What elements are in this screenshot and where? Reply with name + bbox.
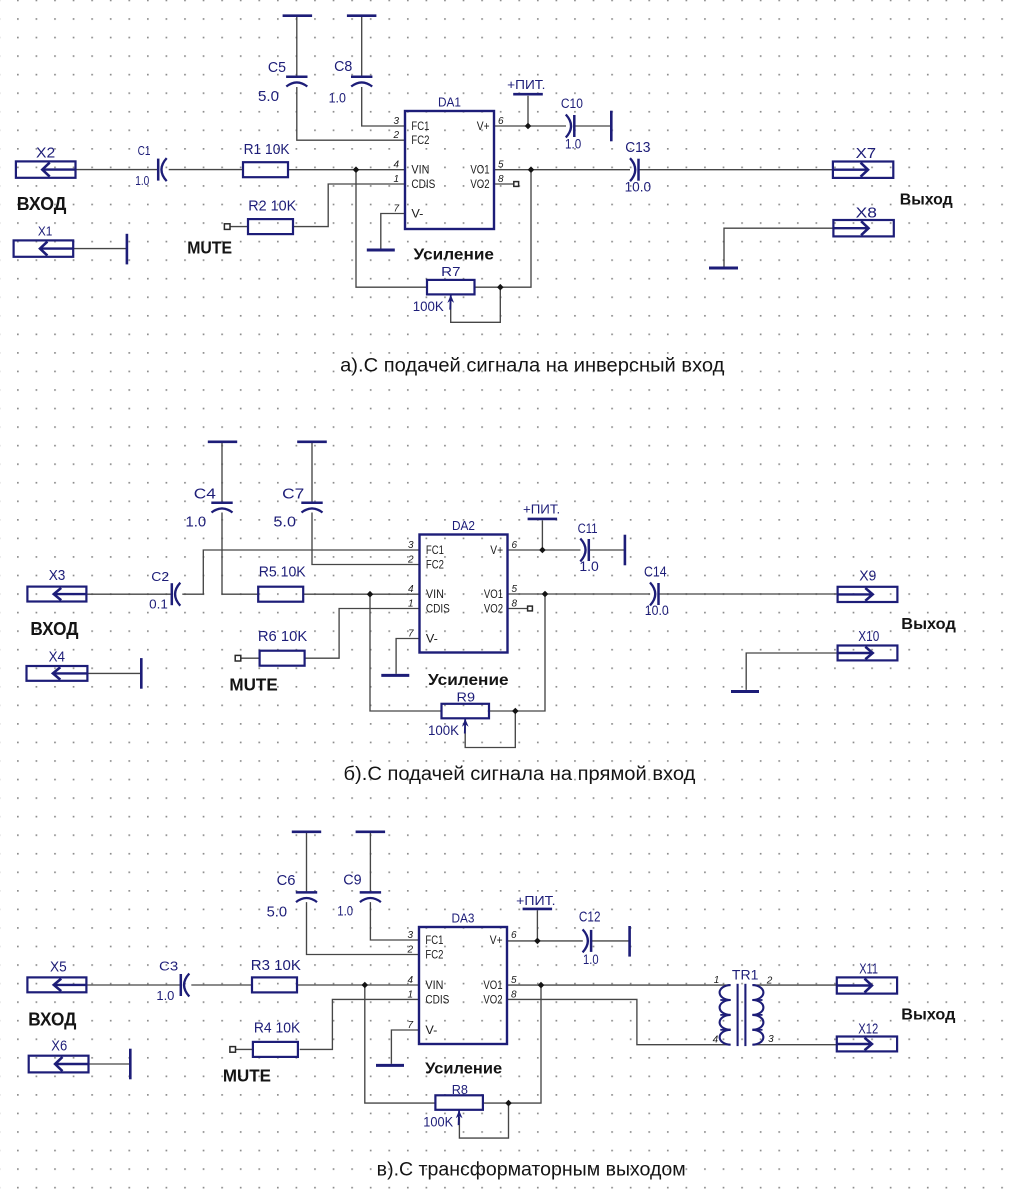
svg-text:2: 2 <box>392 130 399 141</box>
svg-text:3: 3 <box>407 930 413 941</box>
svg-text:R5 10K: R5 10K <box>259 564 306 581</box>
svg-text:X10: X10 <box>858 629 879 645</box>
svg-text:C14: C14 <box>644 564 667 580</box>
wire C8 top to ground bar <box>361 17 363 77</box>
wire X4 stub to terminator bar <box>87 672 141 674</box>
svg-text:4: 4 <box>393 160 399 171</box>
wire MUTE terminal to R4 <box>236 1048 253 1050</box>
svg-text:DA2: DA2 <box>452 518 475 533</box>
svg-text:б).С подачей сигнала на прямой: б).С подачей сигнала на прямой вход <box>344 764 696 785</box>
svg-text:DA1: DA1 <box>438 95 461 110</box>
svg-text:X4: X4 <box>49 650 65 666</box>
svg-text:R2 10K: R2 10K <box>248 198 296 215</box>
resistor R5 <box>258 564 306 602</box>
op-amp DA3 <box>406 911 517 1045</box>
wire C14 to X9 <box>659 593 838 595</box>
wire +PWR bar down to V+ line b <box>541 520 543 550</box>
wire pin 1 CDIS DA1 to R2 <box>293 184 405 227</box>
svg-text:5: 5 <box>498 160 504 171</box>
svg-text:V-: V- <box>426 633 438 645</box>
svg-text:1: 1 <box>407 989 413 1000</box>
terminator bar after C12 <box>628 926 631 957</box>
capacitor C1 <box>135 143 167 188</box>
junction V+ node b <box>539 547 546 554</box>
svg-text:1.0: 1.0 <box>583 952 599 967</box>
svg-text:C12: C12 <box>579 910 601 926</box>
junction R8 wiper node <box>505 1100 512 1107</box>
svg-text:6: 6 <box>498 116 504 127</box>
transformer TR1 <box>713 968 774 1047</box>
connector X12 <box>837 1022 897 1052</box>
terminator bar after C10 <box>610 111 613 142</box>
svg-text:3: 3 <box>393 116 399 127</box>
ground bar X10 <box>731 690 759 693</box>
svg-text:7: 7 <box>393 204 399 215</box>
junction R7 wiper node <box>497 284 504 291</box>
svg-text:2: 2 <box>406 945 413 956</box>
ground bar above C7 <box>297 440 327 443</box>
wire pin 5 VO1 DA2 to C14 <box>508 593 651 595</box>
svg-text:VO1: VO1 <box>483 980 502 992</box>
svg-text:1.0: 1.0 <box>565 137 581 152</box>
wire C1 to R1 <box>169 169 243 171</box>
svg-text:C1: C1 <box>138 143 151 158</box>
connector X10 <box>838 629 898 661</box>
svg-text:Усиление: Усиление <box>425 1060 502 1077</box>
svg-text:X9: X9 <box>859 569 876 585</box>
svg-text:+ПИТ.: +ПИТ. <box>516 894 555 908</box>
wire C10 to terminator bar <box>574 125 611 127</box>
svg-text:+ПИТ.: +ПИТ. <box>523 503 560 517</box>
terminal square MUTE c <box>230 1047 236 1053</box>
svg-text:ВХОД: ВХОД <box>17 193 67 214</box>
svg-text:X3: X3 <box>49 568 66 584</box>
connector X4 <box>27 650 88 681</box>
connector X3 <box>27 568 86 602</box>
svg-text:C3: C3 <box>159 959 178 974</box>
svg-text:TR1: TR1 <box>732 968 759 983</box>
capacitor C10 <box>561 96 583 151</box>
svg-text:R8: R8 <box>452 1082 468 1097</box>
wire R5 to pin 4 VIN DA2 <box>303 593 419 595</box>
svg-text:FC2: FC2 <box>411 135 429 147</box>
svg-text:C11: C11 <box>578 521 598 536</box>
wire C9 top to ground bar <box>369 833 371 892</box>
svg-text:10.0: 10.0 <box>625 179 652 194</box>
svg-text:Выход: Выход <box>901 616 956 633</box>
svg-text:VIN: VIN <box>425 980 443 992</box>
wire node VO1 down to R9 right <box>488 594 545 711</box>
ground bar above C4 <box>208 440 237 443</box>
svg-text:R9: R9 <box>457 690 476 705</box>
svg-text:CDIS: CDIS <box>425 994 449 1006</box>
svg-text:1.0: 1.0 <box>337 903 353 919</box>
svg-text:100K: 100K <box>423 1115 453 1130</box>
capacitor C13 <box>625 139 652 194</box>
svg-text:V+: V+ <box>490 935 503 947</box>
wire C3 to R3 <box>191 984 252 986</box>
capacitor C9 <box>337 872 381 919</box>
wire C9 bottom to pin 3 FC1 DA3 <box>370 902 419 940</box>
terminal square VO2 b <box>528 606 533 611</box>
wire MUTE terminal to R2 <box>230 226 248 228</box>
junction VIN node c <box>362 982 369 989</box>
wire X2 to C1 <box>76 169 159 171</box>
svg-text:VO1: VO1 <box>484 589 503 601</box>
junction VIN node b <box>367 591 374 598</box>
junction VO1 node a <box>528 166 535 173</box>
junction VO1 node b <box>542 591 549 598</box>
wire +PWR bar down to V+ line <box>527 96 529 126</box>
svg-text:FC1: FC1 <box>426 545 444 557</box>
terminator bar after C11 <box>624 535 627 566</box>
potentiometer R9 <box>428 690 489 738</box>
svg-text:VO1: VO1 <box>470 165 489 177</box>
wire C5 bottom to pin 2 FC2 DA1 <box>297 87 405 140</box>
junction VIN node a <box>353 166 360 173</box>
svg-text:VIN: VIN <box>411 165 429 177</box>
op-amp DA2 <box>407 518 518 653</box>
svg-text:8: 8 <box>511 989 517 1000</box>
wire pin 6 V+ DA2 to C11 <box>508 549 581 551</box>
ground bar V- DA2 <box>381 674 409 677</box>
wire pin 8 VO2 DA2 stub <box>508 608 528 610</box>
wire X5 to C3 <box>86 984 180 986</box>
svg-text:DA3: DA3 <box>452 911 475 926</box>
svg-text:C6: C6 <box>277 872 296 889</box>
connector X1 <box>14 224 74 257</box>
svg-text:3: 3 <box>768 1034 774 1045</box>
svg-text:5.0: 5.0 <box>258 88 279 105</box>
wire pin 6 V+ DA3 to C12 <box>507 940 583 942</box>
svg-text:R4 10K: R4 10K <box>254 1020 300 1037</box>
ground bar X8 <box>709 267 738 270</box>
svg-text:10.0: 10.0 <box>645 603 669 618</box>
terminator bar at X6 <box>129 1049 132 1080</box>
svg-text:1.0: 1.0 <box>135 173 149 188</box>
wire X1 stub to terminator bar <box>74 248 127 250</box>
svg-text:1.0: 1.0 <box>329 89 346 105</box>
capacitor C12 <box>579 910 601 967</box>
svg-text:0.1: 0.1 <box>149 597 168 612</box>
svg-text:8: 8 <box>498 174 504 185</box>
wire R9 wiper return <box>465 711 515 748</box>
terminator bar at X4 <box>140 658 143 689</box>
svg-text:C2: C2 <box>151 569 169 584</box>
svg-text:а).С подачей сигнала на инверс: а).С подачей сигнала на инверсный вход <box>340 356 724 377</box>
svg-text:1.0: 1.0 <box>579 559 598 574</box>
wire R8 wiper return <box>459 1103 508 1138</box>
svg-text:Выход: Выход <box>900 191 953 208</box>
wire pin 8 VO2 DA3 to TR1 pin 4 <box>507 999 731 1044</box>
svg-text:5: 5 <box>511 975 517 986</box>
svg-text:1.0: 1.0 <box>156 988 174 1003</box>
svg-text:Усиление: Усиление <box>428 672 509 689</box>
svg-text:MUTE: MUTE <box>187 237 232 257</box>
svg-text:4: 4 <box>408 584 414 595</box>
terminal square MUTE a <box>224 224 230 230</box>
svg-text:C10: C10 <box>561 96 583 111</box>
svg-text:1: 1 <box>393 174 399 185</box>
junction R9 wiper node <box>512 708 519 715</box>
capacitor C14 <box>644 564 669 618</box>
svg-text:4: 4 <box>407 975 413 986</box>
wire pin 6 V+ DA1 to C10 <box>494 125 566 127</box>
svg-text:в).С трансформаторным выходом: в).С трансформаторным выходом <box>377 1160 686 1181</box>
power +PWR a <box>507 78 545 94</box>
svg-text:X5: X5 <box>50 960 67 976</box>
terminal square MUTE b <box>235 655 241 661</box>
svg-text:V-: V- <box>411 208 423 220</box>
svg-text:5.0: 5.0 <box>273 515 296 531</box>
svg-text:VO2: VO2 <box>484 603 503 615</box>
capacitor C11 <box>578 521 599 574</box>
svg-text:R6 10K: R6 10K <box>258 628 307 645</box>
wire node VIN down to R8 left <box>365 985 436 1103</box>
svg-text:X2: X2 <box>36 145 55 162</box>
terminator bar at X1 <box>126 234 129 265</box>
potentiometer R7 <box>413 264 475 314</box>
wire C7 bottom to pin 2 FC2 DA2 <box>312 513 420 565</box>
wire X6 stub to terminator bar <box>89 1063 131 1065</box>
wire X3 to C2 <box>86 593 171 595</box>
svg-text:X11: X11 <box>859 961 878 977</box>
wire node VIN down to R9 left <box>370 594 442 711</box>
wire C13 to X7 <box>639 169 833 171</box>
connector X2 <box>16 145 76 178</box>
svg-text:Усиление: Усиление <box>414 247 495 264</box>
wire R1 to pin 4 VIN DA1 <box>288 169 405 171</box>
svg-text:7: 7 <box>407 1020 413 1031</box>
wire pin 7 V- DA1 to ground <box>381 214 405 249</box>
capacitor C7 <box>273 486 322 531</box>
wire pin 7 V- DA2 to ground <box>396 639 419 674</box>
svg-text:MUTE: MUTE <box>223 1065 271 1085</box>
ground bar above C6 <box>292 830 321 833</box>
svg-text:V+: V+ <box>490 545 503 557</box>
ground bar above C5 <box>283 14 313 17</box>
junction V+ node a <box>525 123 532 130</box>
op-amp DA1 <box>392 95 504 230</box>
wire pin 5 VO1 DA1 to C13 <box>494 169 630 171</box>
capacitor C8 <box>329 58 373 105</box>
wire C12 to terminator bar <box>591 940 630 942</box>
connector X9 <box>838 569 898 603</box>
svg-text:X12: X12 <box>858 1022 878 1038</box>
terminal square VO2 a <box>514 182 519 187</box>
resistor R3 <box>251 957 301 993</box>
potentiometer R8 <box>423 1082 483 1130</box>
svg-text:1.0: 1.0 <box>186 515 207 531</box>
svg-text:C5: C5 <box>268 59 286 76</box>
svg-text:C13: C13 <box>625 139 650 156</box>
wire pin 5 VO1 DA3 to TR1 pin 1 <box>507 984 731 986</box>
ground bar V- DA1 <box>367 249 395 252</box>
capacitor C3 <box>156 959 189 1004</box>
wire C6 top to ground bar <box>306 833 308 892</box>
wire TR1 pin 2 to X11 <box>752 984 836 986</box>
ground bar V- DA3 <box>376 1064 404 1067</box>
svg-text:C4: C4 <box>194 486 216 503</box>
svg-text:7: 7 <box>408 629 414 640</box>
wire TR1 pin 3 to X12 <box>752 1044 836 1046</box>
svg-text:V-: V- <box>425 1025 437 1037</box>
svg-text:ВХОД: ВХОД <box>30 618 78 639</box>
power +PWR b <box>523 503 560 519</box>
wire +PWR bar down to V+ line c <box>536 910 538 941</box>
resistor R2 <box>248 198 296 235</box>
svg-text:8: 8 <box>512 599 518 610</box>
svg-text:X1: X1 <box>38 224 53 239</box>
svg-text:R1 10K: R1 10K <box>244 141 290 158</box>
wire C6 bottom to pin 2 FC2 DA3 <box>307 902 420 954</box>
svg-text:4: 4 <box>713 1035 719 1046</box>
capacitor C4 <box>186 486 233 531</box>
svg-text:X7: X7 <box>856 146 877 162</box>
capacitor C2 <box>149 569 180 612</box>
wire node VIN down to R7 left <box>356 170 427 288</box>
wire C11 to terminator bar <box>589 549 625 551</box>
svg-text:6: 6 <box>512 540 518 551</box>
capacitor C6 <box>267 872 318 921</box>
wire pin 1 CDIS DA2 to R6 <box>305 609 420 659</box>
wire X10 to ground <box>746 653 837 690</box>
svg-text:MUTE: MUTE <box>229 675 277 695</box>
svg-text:R3 10K: R3 10K <box>251 957 301 974</box>
wire pin 7 V- DA3 to ground <box>391 1030 419 1064</box>
wire node VO1 down to R8 right <box>483 985 541 1103</box>
junction VO1 node c <box>538 982 545 989</box>
resistor R4 <box>253 1020 300 1057</box>
ground bar above C9 <box>356 830 386 833</box>
connector X5 <box>27 960 86 993</box>
connector X11 <box>837 961 897 993</box>
svg-text:FC2: FC2 <box>426 559 444 571</box>
svg-text:FC2: FC2 <box>425 949 443 961</box>
svg-text:VO2: VO2 <box>470 179 489 191</box>
svg-text:1: 1 <box>714 975 720 986</box>
wire pin 8 VO2 DA1 stub <box>494 183 513 185</box>
wire X8 to ground <box>724 228 833 266</box>
power +PWR c <box>516 894 555 909</box>
svg-text:FC1: FC1 <box>411 121 429 133</box>
wire MUTE terminal to R6 <box>241 657 260 659</box>
wire node VO1 down to R7 right <box>474 170 531 288</box>
svg-text:5.0: 5.0 <box>267 905 288 921</box>
svg-text:6: 6 <box>511 930 517 941</box>
resistor R1 <box>243 141 290 177</box>
svg-text:+ПИТ.: +ПИТ. <box>507 78 545 92</box>
svg-text:100K: 100K <box>428 723 459 738</box>
wire C4 top to ground bar <box>221 443 223 502</box>
svg-text:C7: C7 <box>282 486 304 503</box>
svg-text:2: 2 <box>766 975 773 986</box>
svg-text:FC1: FC1 <box>425 935 443 947</box>
svg-text:VO2: VO2 <box>483 994 502 1006</box>
svg-text:Выход: Выход <box>901 1007 955 1024</box>
svg-text:CDIS: CDIS <box>426 603 450 615</box>
svg-text:3: 3 <box>408 540 414 551</box>
resistor R6 <box>258 628 307 666</box>
ground bar above C8 <box>347 14 377 17</box>
connector X7 <box>833 146 893 178</box>
wire C5 top to ground bar <box>296 17 298 77</box>
svg-text:X8: X8 <box>856 206 877 222</box>
svg-text:CDIS: CDIS <box>411 179 435 191</box>
svg-text:2: 2 <box>407 555 414 566</box>
svg-text:ВХОД: ВХОД <box>28 1008 76 1029</box>
capacitor C5 <box>258 59 308 105</box>
connector X8 <box>833 206 893 237</box>
wire C2 up to pin 3 FC1 DA2 <box>182 550 419 594</box>
svg-text:X6: X6 <box>51 1038 67 1054</box>
svg-text:1: 1 <box>408 599 414 610</box>
svg-text:V+: V+ <box>477 121 490 133</box>
connector X6 <box>29 1038 89 1072</box>
svg-text:5: 5 <box>512 584 518 595</box>
svg-text:C9: C9 <box>343 872 361 889</box>
svg-text:100K: 100K <box>413 299 444 314</box>
wire C8 bottom to pin 3 FC1 DA1 <box>362 87 405 126</box>
junction V+ node c <box>534 938 541 945</box>
svg-text:VIN: VIN <box>426 589 444 601</box>
wire R3 to pin 4 VIN DA3 <box>297 984 419 986</box>
wire R7 wiper return <box>451 287 501 322</box>
wire C4 bottom to R5 <box>222 513 258 595</box>
wire pin 1 CDIS DA3 to R4 <box>300 999 419 1049</box>
wire C7 top to ground bar <box>311 443 313 502</box>
svg-text:R7: R7 <box>441 264 460 279</box>
svg-text:C8: C8 <box>334 58 352 75</box>
